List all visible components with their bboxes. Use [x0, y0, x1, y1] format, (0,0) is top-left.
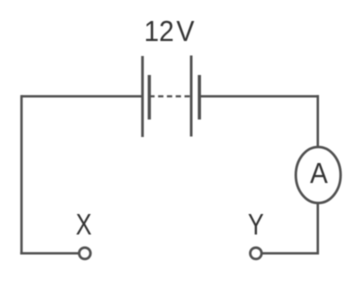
battery B1 cell 2 short plate: [198, 75, 201, 120]
wire right vertical (top wire down to ammeter): [317, 95, 319, 147]
svg-text:12V: 12V: [144, 15, 195, 47]
battery B1 cell 1 long plate: [141, 56, 144, 137]
wire left vertical: [20, 95, 22, 254]
wire top-left horizontal (battery to left branch): [22, 95, 143, 97]
svg-text:A: A: [310, 157, 328, 189]
wire bottom-right horizontal to terminal Y: [263, 252, 320, 254]
wire top-right horizontal (battery to ammeter branch): [199, 95, 319, 97]
wire ammeter bottom to bottom-right corner: [317, 203, 319, 255]
terminal X (open circle): [79, 248, 90, 259]
battery B1 dashed link (additional cells): [149, 95, 191, 97]
svg-text:Y: Y: [248, 207, 264, 241]
battery B1 cell 1 short plate: [148, 75, 151, 120]
battery B1 cell 2 long plate: [190, 56, 193, 137]
terminal Y (open circle): [250, 248, 261, 259]
ammeter A1 body: [296, 147, 341, 203]
wire bottom-left horizontal to terminal X: [20, 252, 79, 254]
svg-text:X: X: [76, 207, 92, 241]
